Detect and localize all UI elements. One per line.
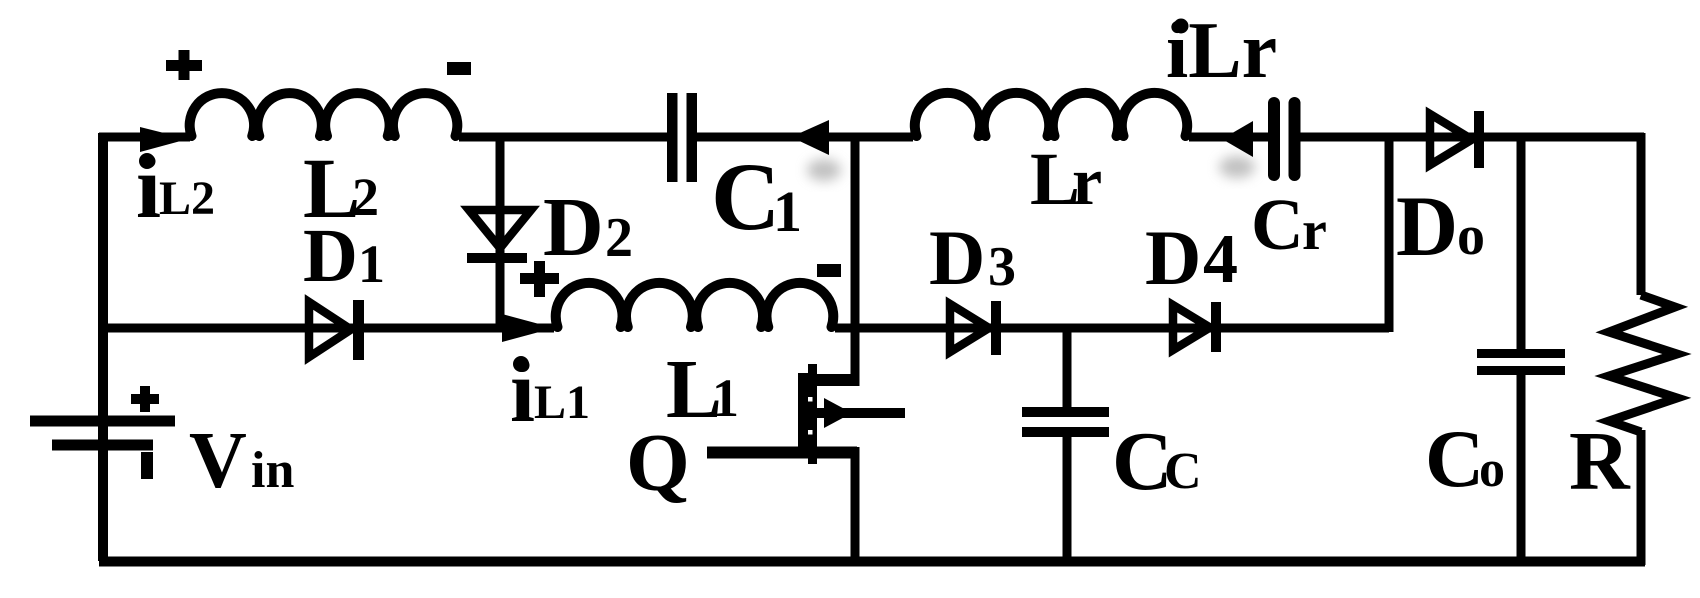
- svg-text:3: 3: [988, 236, 1016, 298]
- svg-text:1: 1: [773, 179, 802, 244]
- svg-text:C: C: [1164, 443, 1202, 500]
- svg-text:C: C: [711, 143, 780, 250]
- svg-text:Q: Q: [626, 417, 690, 508]
- svg-text:o: o: [1457, 205, 1485, 267]
- svg-text:1: 1: [712, 368, 739, 428]
- svg-text:i: i: [136, 138, 161, 237]
- svg-text:R: R: [1569, 415, 1631, 508]
- svg-text:L2: L2: [159, 172, 215, 225]
- svg-text:4: 4: [1203, 221, 1238, 298]
- svg-text:in: in: [251, 442, 294, 499]
- svg-text:1: 1: [358, 234, 385, 294]
- svg-text:D: D: [543, 181, 604, 274]
- svg-text:L1: L1: [534, 376, 590, 429]
- svg-text:V: V: [189, 417, 247, 505]
- svg-text:r: r: [1302, 200, 1327, 262]
- svg-text:D: D: [1145, 214, 1201, 301]
- svg-text:r: r: [1072, 143, 1102, 219]
- svg-text:D: D: [303, 214, 358, 298]
- svg-text:D: D: [929, 214, 985, 301]
- svg-text:o: o: [1479, 441, 1505, 498]
- svg-text:C: C: [1251, 184, 1304, 265]
- svg-text:C: C: [1425, 413, 1484, 504]
- svg-text:D: D: [1396, 178, 1458, 274]
- svg-text:2: 2: [605, 207, 633, 269]
